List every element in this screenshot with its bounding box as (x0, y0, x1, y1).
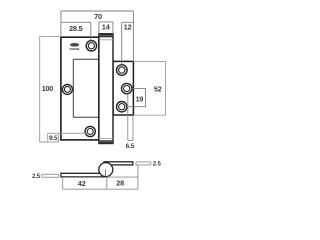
svg-text:70: 70 (94, 12, 102, 21)
svg-text:2.5: 2.5 (153, 161, 162, 167)
knuckle bottom seam (99, 138, 113, 140)
dimension 70 line (61, 11, 133, 61)
screw hole left leaf bottom (85, 126, 95, 136)
screw hole right leaf middle (122, 83, 132, 93)
dimension 100 line (40, 37, 61, 142)
screw hole left leaf middle (62, 84, 72, 94)
side view knuckle barrel (99, 163, 113, 177)
dimension 6.5 lines (128, 94, 133, 141)
screw hole right leaf bottom (117, 102, 127, 112)
svg-text:28.5: 28.5 (69, 24, 83, 33)
cutout in left leaf (73, 59, 113, 117)
dimension 52 bracket (133, 61, 165, 115)
dimension 9.5 leader (59, 132, 86, 134)
svg-text:6.5: 6.5 (126, 143, 135, 150)
svg-text:SS304/99: SS304/99 (69, 47, 80, 51)
knuckle top seam (99, 39, 113, 41)
brand logo oval (70, 43, 79, 47)
knuckle top cap (99, 34, 113, 37)
side view dimension box (63, 165, 138, 189)
knuckle column (99, 34, 113, 144)
side view left plate thickness tab (42, 174, 59, 177)
svg-text:14: 14 (102, 23, 111, 32)
knuckle bottom cap (99, 140, 113, 143)
dimension 9.5 box (48, 133, 59, 142)
dimension 12 box (122, 22, 134, 64)
screw hole left leaf top (86, 41, 96, 51)
side view right leaf bar (104, 162, 133, 165)
side view pin line (105, 170, 107, 177)
svg-text:100: 100 (42, 84, 54, 93)
left leaf (61, 37, 99, 140)
side view left leaf bar (61, 173, 105, 177)
svg-text:12: 12 (124, 23, 132, 32)
svg-text:19: 19 (136, 95, 144, 104)
dimension 28.5 box (61, 22, 91, 40)
dimension 14 box (99, 22, 113, 34)
dimension 19 lines (127, 89, 146, 107)
screw hole right leaf top (117, 65, 128, 76)
svg-text:28: 28 (116, 179, 124, 188)
svg-text:2.5: 2.5 (32, 174, 41, 180)
svg-text:9.5: 9.5 (49, 135, 58, 142)
side view right plate thickness tab (136, 162, 151, 165)
right leaf (113, 61, 133, 115)
svg-text:42: 42 (78, 179, 86, 188)
svg-text:52: 52 (154, 85, 162, 94)
